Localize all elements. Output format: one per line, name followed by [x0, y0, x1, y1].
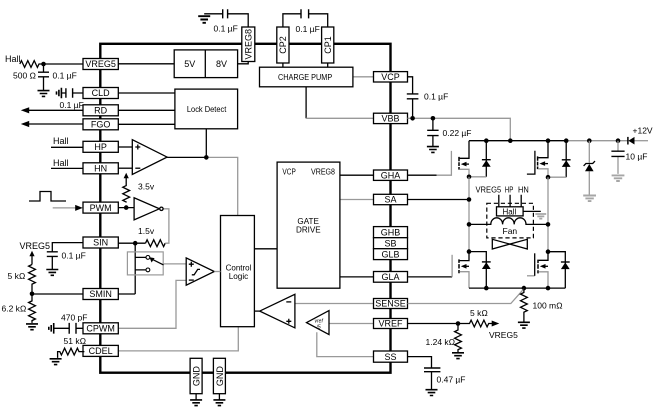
svg-text:GND: GND	[192, 366, 202, 387]
svg-text:RD: RD	[94, 106, 107, 116]
node 0.22uF tap	[431, 116, 436, 121]
svg-text:VBB: VBB	[381, 114, 399, 124]
svg-text:8V: 8V	[216, 59, 227, 69]
svg-text:SIN: SIN	[93, 238, 108, 248]
wire SMIN to switch	[118, 293, 135, 295]
diode reverse protection +12V	[628, 137, 648, 145]
arrow to VREG5	[492, 321, 500, 327]
node inductor left	[467, 222, 472, 227]
ground below VREG5 cap	[38, 91, 50, 97]
pin VBB	[374, 113, 408, 123]
capacitor 10uF	[611, 141, 624, 174]
resistor feedback on SIN	[146, 240, 166, 247]
node SA tap	[467, 197, 472, 202]
wire VBB rail to bridge	[408, 118, 511, 140]
pin VREG8	[242, 27, 255, 62]
wire bridge top rail black	[469, 140, 566, 142]
wire RD to Lock Detect	[118, 109, 175, 111]
op-amp sense comparator	[260, 294, 295, 328]
vref/5 reference triangle	[307, 311, 330, 335]
wire FGO output arrow	[21, 121, 83, 127]
svg-text:+12V: +12V	[633, 126, 653, 136]
wire CP2 to charge pump	[282, 63, 284, 67]
svg-text:VREG8: VREG8	[311, 167, 335, 177]
svg-text:Hall: Hall	[5, 54, 21, 64]
svg-text:VREG5: VREG5	[489, 330, 518, 340]
wire FGO to Lock Detect	[118, 123, 175, 125]
svg-text:PWM: PWM	[90, 203, 112, 213]
pin GND 1	[190, 358, 202, 393]
diode body A low	[469, 252, 491, 289]
svg-text:DRIVE: DRIVE	[296, 224, 321, 234]
wire PWM to pwm comparator	[118, 207, 134, 209]
SEC:PINS	[83, 27, 408, 394]
svg-text:Hall: Hall	[53, 158, 69, 168]
pin CP1	[322, 27, 334, 63]
pin VCP	[374, 72, 408, 82]
node hall filter junction	[41, 62, 46, 67]
wire VREF to divider	[408, 323, 459, 325]
zener diode clamp	[584, 141, 595, 195]
svg-text:/5: /5	[316, 325, 321, 331]
svg-text:SMIN: SMIN	[89, 289, 112, 299]
svg-text:VREF: VREF	[378, 319, 403, 329]
resistor pull-up on PWM with VREG5 arrow	[123, 173, 130, 203]
capacitor 0.1uF at VREG8	[204, 9, 248, 27]
svg-text:500 Ω: 500 Ω	[13, 70, 37, 80]
op-amp PWM hysteresis comparator	[134, 198, 163, 220]
resistor R 51k at CDEL	[58, 348, 85, 358]
pin HN	[83, 163, 118, 174]
block CHARGE PUMP	[260, 67, 353, 87]
wire gate drive to SA	[340, 199, 374, 201]
wire hall signal to control logic	[206, 157, 237, 215]
block Control Logic	[221, 216, 255, 327]
node inductor right	[546, 222, 551, 227]
capacitor 0.1uF at CLD	[61, 88, 83, 97]
op-amp hall comparator	[132, 140, 167, 175]
wire HP input stub	[51, 146, 83, 148]
svg-text:6.2 kΩ: 6.2 kΩ	[2, 304, 27, 314]
resistor R shunt 100 mohm	[521, 288, 528, 315]
ground below GND pin 1	[190, 394, 202, 406]
pin HP	[83, 141, 118, 152]
node phase B low	[546, 249, 551, 254]
svg-text:0.1 µF: 0.1 µF	[53, 70, 77, 80]
diode body B high	[548, 141, 571, 178]
wire to VBB pin	[306, 117, 373, 119]
IC outline A4931	[100, 44, 390, 373]
node rail diode A bottom	[484, 286, 489, 291]
svg-text:HN: HN	[94, 164, 107, 174]
svg-text:SA: SA	[384, 195, 396, 205]
svg-text:1.5v: 1.5v	[138, 226, 155, 236]
node rail zener	[587, 138, 592, 143]
wire charge pump to VBB	[305, 87, 307, 119]
svg-text:HN: HN	[518, 184, 529, 194]
svg-text:HP: HP	[94, 142, 107, 152]
wire hall to ground stub	[523, 210, 541, 212]
wire SIN node feedback resistor lead	[118, 242, 145, 244]
wire SIN to switch upper contact	[134, 243, 136, 294]
capacitor 0.1uF at SIN	[47, 243, 83, 270]
svg-text:0.1 µF: 0.1 µF	[296, 24, 320, 34]
svg-text:Lock Detect: Lock Detect	[187, 104, 227, 114]
pin CP2	[277, 27, 289, 63]
svg-text:5V: 5V	[184, 59, 195, 69]
pin CPWM	[83, 323, 118, 334]
wire sense comparator output	[254, 310, 259, 312]
wire CPWM to hysteresis comparator	[118, 280, 186, 328]
node SIN junction	[133, 241, 138, 246]
svg-text:Hall: Hall	[503, 207, 517, 216]
op-amp speed comparator with hysteresis	[186, 258, 220, 285]
svg-text:SB: SB	[384, 238, 396, 248]
svg-text:10 µF: 10 µF	[626, 152, 648, 162]
capacitor 0.1uF between CP1 CP2	[283, 9, 328, 27]
pin SB	[374, 238, 408, 249]
capacitor 470pF at CPWM	[54, 323, 83, 334]
svg-text:Fan: Fan	[503, 226, 518, 236]
pin GLB	[374, 249, 408, 260]
arrow into PWM pin	[53, 205, 83, 211]
node VCP cap to VBB	[410, 116, 415, 121]
transistor Q1 high-side A	[408, 141, 470, 177]
diode body B low	[548, 252, 570, 288]
resistor R 5k to VREG5	[458, 320, 494, 327]
pin SENSE	[374, 299, 408, 309]
ground gray below zener	[583, 196, 596, 202]
Hall element box	[497, 207, 524, 217]
pin GHA	[374, 170, 408, 180]
svg-text:VCP: VCP	[381, 72, 400, 82]
svg-text:3.5v: 3.5v	[138, 181, 155, 191]
svg-text:GLB: GLB	[381, 249, 399, 259]
capacitor 0.47uF soft start	[424, 368, 440, 390]
ground gray below 10uF	[612, 175, 625, 181]
node FET A source	[467, 175, 472, 180]
regulator block 5V 8V	[174, 50, 237, 78]
svg-text:GLA: GLA	[381, 272, 399, 282]
wire CDEL to control logic	[118, 327, 238, 351]
svg-text:SS: SS	[384, 352, 396, 362]
wire top rail gray to +12V	[566, 140, 628, 142]
wire switch output to comparator	[163, 263, 186, 265]
transistor Q2 high-side B	[527, 141, 548, 178]
fan dashed enclosure	[487, 203, 534, 238]
svg-text:CPWM: CPWM	[86, 324, 115, 334]
block GATE DRIVE	[277, 162, 340, 288]
wire SS to vref/5 divider	[317, 332, 374, 356]
wire bridge bottom rail	[469, 287, 565, 289]
svg-text:VREG8: VREG8	[244, 29, 254, 60]
wire 8V regulator to VREG8 pin	[238, 62, 249, 64]
svg-text:100 mΩ: 100 mΩ	[533, 300, 564, 310]
resistor R 6.2k	[29, 294, 36, 323]
svg-text:SENSE: SENSE	[375, 299, 406, 309]
switch SIN/SMIN select	[127, 252, 163, 275]
svg-text:0.1 µF: 0.1 µF	[60, 100, 84, 110]
svg-text:FGO: FGO	[91, 120, 111, 130]
ground below 1.24k	[452, 353, 464, 359]
node divider junction	[30, 292, 35, 297]
svg-text:CHARGE PUMP: CHARGE PUMP	[278, 72, 332, 82]
svg-text:GHB: GHB	[381, 227, 401, 237]
wire CP1 to charge pump	[327, 63, 329, 67]
pin PWM	[83, 202, 118, 213]
SEC:INNER	[118, 62, 373, 357]
ground below shunt	[518, 322, 530, 328]
svg-text:VREG5: VREG5	[476, 184, 502, 194]
capacitor 0.1uF at VCP	[407, 77, 419, 119]
pin GHB	[374, 227, 408, 238]
wire phase A vertical	[468, 177, 470, 252]
wire vref/5 to VREF	[329, 323, 374, 325]
wire CLD to Lock Detect	[118, 92, 175, 94]
svg-text:0.22 µF: 0.22 µF	[443, 128, 472, 138]
wire HP to hall comparator	[118, 146, 132, 148]
pin CLD	[83, 88, 118, 99]
ground below GND pin 2	[213, 394, 225, 406]
wire control logic to gate drive	[254, 248, 277, 250]
fan blades symbol	[492, 239, 527, 249]
wire sense comparator to SENSE	[295, 303, 374, 305]
node rail FET B drain	[546, 138, 551, 143]
svg-text:GND: GND	[215, 366, 225, 387]
wire switch contact stubs	[135, 257, 146, 270]
pin FGO	[83, 119, 118, 130]
svg-text:5 kΩ: 5 kΩ	[8, 271, 26, 281]
pin CDEL	[83, 345, 118, 356]
wire VREG5 to 5V regulator	[118, 63, 174, 65]
svg-text:VCP: VCP	[282, 167, 296, 177]
ground below 0.22uF	[427, 147, 439, 153]
node phase A low	[467, 249, 472, 254]
pin VREF	[374, 319, 408, 329]
pin GLA	[374, 272, 408, 283]
node rail VBB feed	[508, 138, 513, 143]
ground at VREG8 cap	[198, 16, 210, 23]
svg-text:5 kΩ: 5 kΩ	[470, 308, 488, 318]
node rail diode B	[564, 138, 569, 143]
transistor Q3 low-side A	[408, 252, 469, 289]
wire hall comparator output	[167, 156, 206, 158]
PWM square wave symbol	[29, 192, 66, 202]
ground gray at hall	[535, 214, 546, 219]
wire charge pump to VCP	[353, 76, 374, 78]
pin SA	[374, 194, 408, 204]
pin SMIN	[83, 289, 118, 300]
wire HN input stub	[51, 167, 83, 169]
resistor R 5k	[29, 265, 36, 294]
inductor fan winding	[469, 218, 548, 225]
wire RD output arrow	[21, 107, 83, 113]
wire SENSE to shunt	[408, 289, 524, 304]
resistor R 1.24k	[455, 324, 462, 353]
pin SS	[374, 351, 408, 362]
wire to VREG5 pin	[44, 63, 84, 65]
block Lock Detect	[175, 89, 238, 129]
svg-text:Logic: Logic	[229, 271, 249, 281]
arrow VREG5 up	[29, 251, 34, 265]
wire phase B vertical	[547, 177, 549, 252]
node PWM junction	[124, 205, 129, 210]
diode body A high	[469, 141, 491, 177]
svg-text:CDEL: CDEL	[89, 346, 113, 356]
transistor Q4 low-side B	[527, 252, 548, 288]
ground rotated at CLD cap	[57, 88, 62, 99]
pin GND 2	[213, 358, 225, 393]
pin VREG5	[83, 59, 118, 70]
wire SS to soft-start cap	[408, 357, 432, 368]
ground below 6.2k	[26, 324, 38, 330]
wire SA to phase A	[408, 199, 470, 201]
capacitor 0.22uF at VBB	[427, 118, 438, 146]
ground rotated at CPWM cap	[49, 323, 54, 334]
wire HN to hall comparator	[118, 167, 132, 169]
wire gate drive to GHA	[340, 174, 374, 176]
node rail 10uF	[616, 138, 621, 143]
svg-text:1.24 kΩ: 1.24 kΩ	[426, 337, 456, 347]
svg-text:0.47 µF: 0.47 µF	[437, 375, 466, 385]
ground below 0.47uF	[426, 390, 438, 396]
resistor R 500 ohm	[20, 61, 44, 68]
svg-text:0.1 µF: 0.1 µF	[214, 23, 238, 33]
svg-text:0.1 µF: 0.1 µF	[424, 92, 448, 102]
pin SIN	[83, 237, 118, 248]
node rail diode A	[484, 138, 489, 143]
svg-text:HP: HP	[505, 184, 514, 194]
node FET B source	[546, 175, 551, 180]
capacitor 0.1uF at VREG5	[38, 64, 49, 91]
svg-text:CLD: CLD	[92, 88, 111, 98]
wire Lock Detect output down	[205, 129, 207, 158]
wire shunt to ground	[523, 315, 525, 322]
svg-text:51 kΩ: 51 kΩ	[64, 336, 87, 346]
svg-text:VREG5: VREG5	[85, 59, 116, 69]
node VREF divider	[456, 321, 461, 326]
wire pwm comparator feedback	[163, 209, 169, 243]
svg-text:GHA: GHA	[381, 170, 401, 180]
ground below 51k	[50, 359, 62, 365]
svg-text:CP1: CP1	[323, 36, 333, 54]
svg-text:CP2: CP2	[278, 36, 288, 54]
node rail FET B source	[546, 286, 551, 291]
svg-text:0.1 µF: 0.1 µF	[62, 250, 86, 260]
wire divider to SMIN	[32, 293, 83, 295]
node hall comparator output junction	[204, 155, 209, 160]
svg-text:Hall: Hall	[53, 136, 69, 146]
wire gate drive to GLA	[340, 276, 374, 278]
ground below SIN cap	[46, 270, 58, 276]
svg-text:470 pF: 470 pF	[61, 312, 87, 322]
svg-text:VREG5: VREG5	[20, 241, 51, 251]
pin RD	[83, 105, 118, 116]
node rail sense tap	[522, 286, 527, 291]
wire hall element stubs	[499, 195, 521, 207]
